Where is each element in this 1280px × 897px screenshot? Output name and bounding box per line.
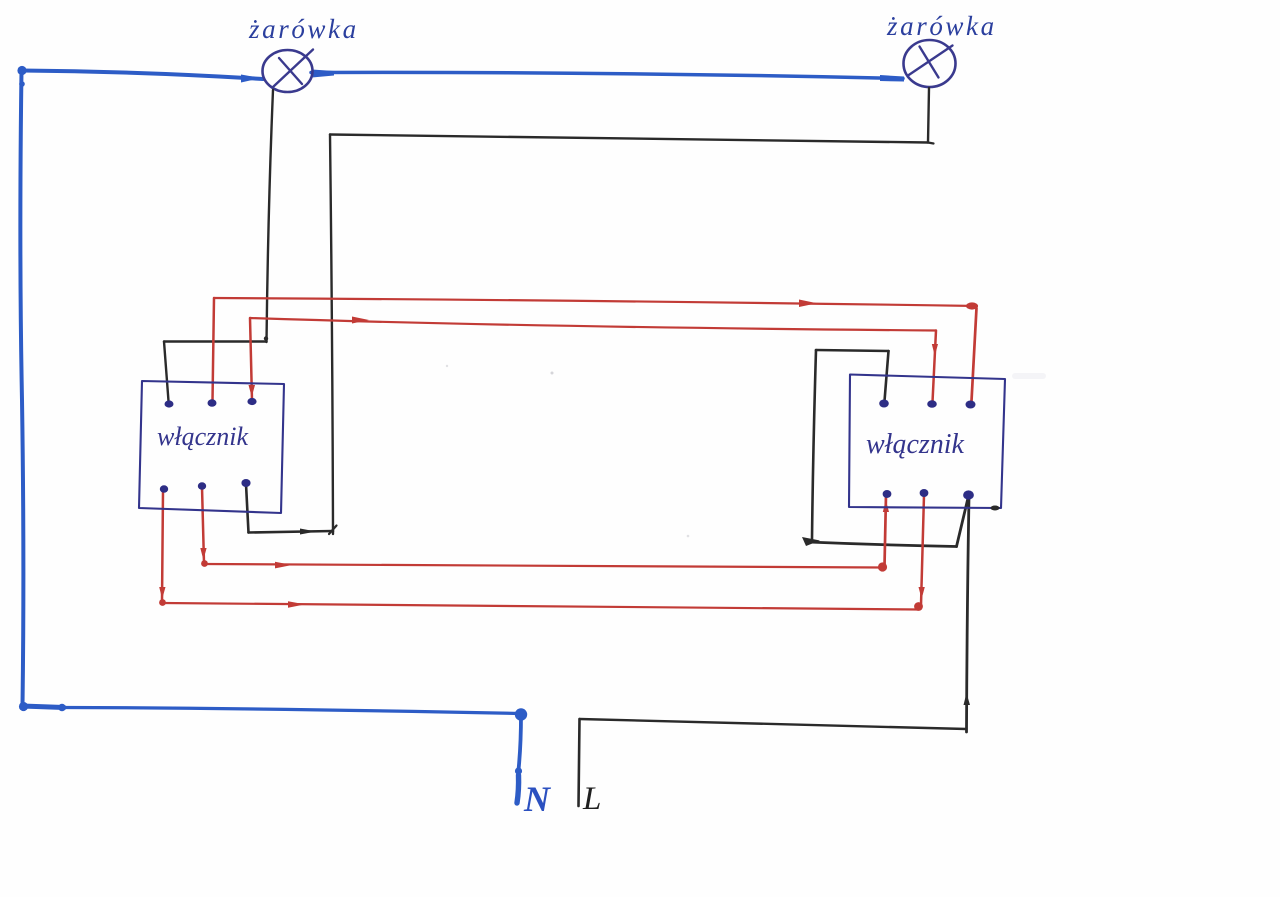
wire black down to right switch pin 1 — [885, 351, 889, 401]
wire red upper run right vertical — [972, 308, 977, 401]
pin S2-3 — [966, 401, 976, 409]
svg-text:włącznik: włącznik — [866, 429, 965, 460]
arrowhead red upper run — [799, 300, 817, 308]
smudge dot near left box — [446, 365, 448, 367]
wire red lower run B left vertical — [162, 491, 163, 602]
pin S1-4 — [160, 485, 168, 493]
node red lower run B right corner — [914, 602, 923, 611]
arrowhead black on vertical (up) — [964, 693, 971, 705]
node blue top-left corner — [17, 66, 26, 75]
pin S2-6 — [963, 490, 974, 499]
wire red lower run B right vertical — [921, 495, 924, 605]
arrowhead red lower run A left vertical (down) — [200, 548, 206, 560]
wire red lower run A horizontal — [205, 564, 883, 568]
arrowhead black junction left — [802, 537, 820, 546]
node black on S2 bottom edge — [991, 506, 1000, 511]
wire black corner nub right lamp — [928, 143, 934, 144]
pin S2-4 — [883, 490, 892, 498]
arrowhead blue before right lamp — [880, 75, 904, 82]
arrowhead red lower run B left vertical (down) — [159, 587, 165, 599]
wire red second run horizontal — [250, 318, 936, 331]
pin S1-2 — [208, 399, 217, 407]
wire red second run left vertical — [250, 318, 252, 400]
wire black right lamp down — [928, 88, 929, 143]
smudge near right switch top — [1012, 373, 1046, 379]
node red upper right corner — [966, 302, 978, 309]
svg-text:L: L — [582, 781, 601, 817]
wire black long top horizontal — [330, 135, 928, 143]
switch S2 box — [849, 375, 1005, 509]
arrowhead blue after left lamp — [312, 70, 334, 78]
arrowhead red lower run A — [275, 562, 292, 569]
svg-text:żarówka: żarówka — [886, 11, 997, 41]
wire red lower run B horizontal — [163, 603, 919, 610]
wire black diagonal to right switch pin 6 — [957, 498, 969, 547]
lamp L2 (right) body — [904, 40, 956, 87]
arrowhead black on join — [300, 529, 316, 535]
arrowhead red lower run B — [288, 601, 305, 608]
wire blue N terminal stroke — [517, 775, 519, 803]
wire blue top-left horizontal to left lamp — [22, 71, 264, 80]
wire black short join to middle vertical — [249, 531, 334, 533]
arrowhead red second run right vertical (down) — [932, 344, 938, 356]
wire blue N left vertical — [20, 70, 23, 706]
node blue N junction — [515, 708, 527, 720]
wire black from left switch pin 6 down — [246, 484, 249, 533]
wire red lower run A left vertical — [202, 487, 204, 563]
lamp L1 (left) body — [263, 50, 313, 92]
node blue below top corner — [19, 81, 25, 87]
arrowhead red lower run B down — [919, 587, 925, 599]
wire black bottom horizontal to L — [580, 719, 967, 729]
node blue bottom corner blob — [19, 702, 28, 711]
svg-text:żarówka: żarówka — [248, 14, 359, 44]
wire red second run right vertical — [933, 331, 937, 403]
arrowhead red lower run A up — [883, 500, 889, 512]
switch S1 box — [139, 381, 284, 513]
pin S1-3 — [247, 398, 256, 405]
wire red upper run left vertical — [213, 298, 215, 401]
wire red lower run A right vertical — [885, 495, 887, 566]
pin S1-6 — [241, 479, 250, 487]
arrowhead blue before left lamp — [241, 75, 261, 83]
wire blue N drop — [519, 715, 522, 770]
wire black L drop — [579, 719, 580, 806]
lamp L2 cross — [908, 46, 953, 78]
wire blue bottom horizontal run — [64, 708, 520, 714]
wire blue between lamps — [311, 72, 903, 78]
wire black left lamp down — [267, 90, 274, 342]
smudge dot right of junction — [687, 535, 690, 538]
svg-text:włącznik: włącznik — [157, 422, 248, 451]
wire black long middle vertical — [330, 135, 333, 535]
wire black long vertical from right switch pin 6 — [967, 496, 970, 732]
wire black right switch upper-left vertical — [812, 350, 816, 539]
arrowhead red second run — [352, 317, 369, 324]
wire black left shelf horizontal — [164, 340, 267, 342]
node red lower run B left corner — [159, 599, 166, 606]
pin S2-5 — [920, 489, 929, 497]
smudge dot upper middle — [551, 372, 554, 375]
wire black down to left switch pin 1 — [164, 342, 169, 402]
node red lower run A right corner — [878, 562, 887, 571]
svg-text:N: N — [523, 779, 552, 819]
wire red upper run horizontal — [214, 298, 977, 306]
arrowhead red second run left vertical (down) — [249, 385, 256, 397]
pin S2-1 — [879, 400, 889, 408]
node blue bottom-left — [58, 704, 66, 712]
pin S1-5 — [198, 482, 206, 490]
node blue N drop mid — [515, 767, 522, 774]
pin S2-2 — [927, 400, 937, 408]
node red lower run A left corner — [201, 560, 208, 567]
node black corner nub — [264, 336, 268, 340]
wire black lower shelf of right switch — [808, 542, 957, 547]
lamp L1 cross — [274, 50, 314, 87]
wire black right switch top shelf — [816, 350, 889, 351]
wire black junction tick — [329, 526, 337, 535]
pin S1-1 — [165, 400, 174, 407]
wire blue bottom horizontal — [22, 706, 64, 708]
